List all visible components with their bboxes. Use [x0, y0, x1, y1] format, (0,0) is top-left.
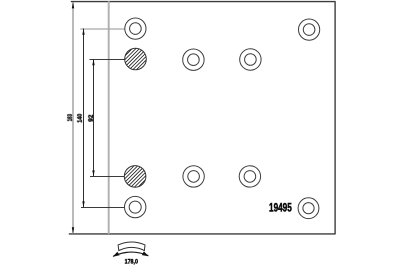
svg-text:92: 92 [88, 114, 95, 121]
dimension 92 top arrow [92, 59, 94, 65]
hole ring D2 [298, 198, 319, 219]
width arc arrow [113, 252, 148, 256]
plate bottom edge [69, 233, 336, 235]
svg-text:178,0: 178,0 [125, 258, 139, 266]
dimension 140 line [83, 29, 85, 208]
hole ring C3 [239, 166, 260, 187]
arrowhead right [142, 251, 149, 256]
hole ring D1 [125, 196, 146, 217]
dimension 163 top arrow [72, 2, 74, 8]
hatched hole C1 [124, 166, 146, 188]
plate top edge [71, 1, 336, 3]
hole ring A1 [125, 18, 146, 39]
svg-text:19495: 19495 [269, 202, 292, 215]
dimension 140 bottom arrow [82, 201, 84, 207]
leader row B [90, 59, 126, 61]
dimension 163 line (grey) [72, 2, 74, 233]
dimension 92 line [93, 60, 95, 177]
svg-text:140: 140 [76, 113, 84, 122]
hole ring B2 [183, 49, 204, 70]
arrowhead left [113, 252, 120, 257]
svg-text:163: 163 [67, 114, 74, 121]
leader row C [90, 176, 125, 178]
lining cross-section band [118, 242, 145, 251]
hole ring B3 [240, 49, 261, 70]
hole ring C2 [183, 166, 204, 187]
dimension 92 bottom arrow [92, 170, 94, 176]
dimension 163 bottom arrow [72, 227, 74, 233]
plate right edge [334, 1, 336, 234]
leader row A [80, 28, 125, 30]
leader row D [81, 207, 125, 209]
plate left edge (grey) [108, 1, 110, 234]
hole ring A2 [299, 19, 320, 40]
dimension 140 top arrow [82, 29, 84, 35]
hatched hole B1 [125, 48, 147, 70]
